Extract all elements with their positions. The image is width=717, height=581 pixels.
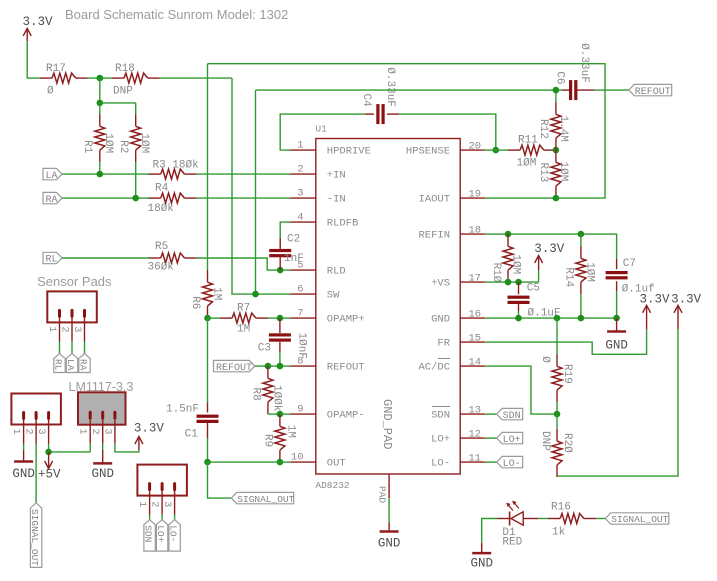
svg-text:LA: LA xyxy=(65,359,76,371)
svg-text:13: 13 xyxy=(469,405,482,417)
svg-text:R11: R11 xyxy=(518,134,538,146)
svg-text:LO+: LO+ xyxy=(503,435,521,446)
svg-text:SDN: SDN xyxy=(503,411,521,422)
svg-text:REFOUT: REFOUT xyxy=(327,362,365,374)
svg-text:SDN: SDN xyxy=(431,410,450,422)
svg-text:3.3V: 3.3V xyxy=(671,292,702,306)
svg-text:HPDRIVE: HPDRIVE xyxy=(327,146,371,158)
svg-text:1: 1 xyxy=(10,429,21,435)
svg-text:R3 18Øk: R3 18Øk xyxy=(153,159,200,171)
svg-text:1ØM: 1ØM xyxy=(517,158,537,170)
svg-text:RLDFB: RLDFB xyxy=(327,218,359,230)
svg-text:3: 3 xyxy=(71,326,82,332)
svg-text:REFIN: REFIN xyxy=(418,230,450,242)
svg-text:1.4M: 1.4M xyxy=(557,116,569,142)
svg-text:R2Ø: R2Ø xyxy=(561,433,573,453)
svg-text:R7: R7 xyxy=(237,302,250,314)
svg-text:FR: FR xyxy=(437,338,450,350)
svg-text:SW: SW xyxy=(327,290,340,302)
svg-text:R1Ø: R1Ø xyxy=(490,263,502,283)
svg-text:19: 19 xyxy=(469,189,482,201)
svg-text:1: 1 xyxy=(297,140,303,152)
svg-text:GND_PAD: GND_PAD xyxy=(380,399,394,449)
svg-text:1: 1 xyxy=(77,429,88,435)
svg-text:RL: RL xyxy=(46,255,58,266)
svg-text:C5: C5 xyxy=(527,283,540,295)
svg-text:R9: R9 xyxy=(262,434,274,447)
svg-text:GND: GND xyxy=(470,557,493,571)
svg-text:1M: 1M xyxy=(211,287,223,300)
svg-text:GND: GND xyxy=(605,339,628,353)
svg-text:2: 2 xyxy=(149,501,160,507)
svg-text:18Øk: 18Øk xyxy=(148,203,175,215)
svg-text:R5: R5 xyxy=(155,241,168,253)
svg-text:LO+: LO+ xyxy=(155,525,166,542)
svg-text:9: 9 xyxy=(297,404,303,416)
svg-text:36Øk: 36Øk xyxy=(148,262,175,274)
svg-text:SIGNAL_OUT: SIGNAL_OUT xyxy=(611,514,668,525)
svg-text:RA: RA xyxy=(78,359,89,371)
svg-text:C4: C4 xyxy=(360,94,372,108)
svg-text:SDN: SDN xyxy=(143,525,154,542)
svg-text:3: 3 xyxy=(35,429,46,435)
svg-text:18: 18 xyxy=(469,225,482,237)
svg-text:LA: LA xyxy=(46,171,58,182)
svg-text:3: 3 xyxy=(297,188,303,200)
svg-text:IAOUT: IAOUT xyxy=(418,194,450,206)
svg-text:R2: R2 xyxy=(117,140,129,153)
svg-text:3.3V: 3.3V xyxy=(534,242,565,256)
svg-text:1ØM: 1ØM xyxy=(557,162,569,182)
svg-text:6: 6 xyxy=(297,284,303,296)
svg-text:RL: RL xyxy=(53,359,64,371)
svg-text:SIGNAL_OUT: SIGNAL_OUT xyxy=(237,494,294,505)
svg-text:GND: GND xyxy=(431,314,450,326)
svg-text:C1: C1 xyxy=(185,428,199,440)
svg-text:10: 10 xyxy=(291,452,304,464)
svg-text:GND: GND xyxy=(91,467,114,481)
svg-text:1ØM: 1ØM xyxy=(510,254,522,274)
svg-text:11: 11 xyxy=(469,453,482,465)
svg-text:DNP: DNP xyxy=(539,431,551,451)
svg-text:R12: R12 xyxy=(537,119,549,139)
svg-text:1M: 1M xyxy=(237,324,250,336)
svg-text:1ØM: 1ØM xyxy=(102,133,114,153)
svg-text:R14: R14 xyxy=(563,267,575,287)
svg-text:R17: R17 xyxy=(46,63,66,75)
svg-text:R1: R1 xyxy=(81,140,93,154)
svg-text:SIGNAL_OUT: SIGNAL_OUT xyxy=(29,509,40,566)
svg-text:RED: RED xyxy=(502,536,522,548)
svg-text:1: 1 xyxy=(46,326,57,332)
svg-text:LO-: LO- xyxy=(503,459,521,470)
svg-text:2: 2 xyxy=(89,429,100,435)
svg-text:-IN: -IN xyxy=(327,194,346,206)
svg-text:Ø: Ø xyxy=(47,86,54,98)
svg-text:Board Schematic Sunrom Model:: Board Schematic Sunrom Model: 1302 xyxy=(65,7,288,22)
svg-text:2: 2 xyxy=(23,429,34,435)
svg-text:GND: GND xyxy=(378,537,401,551)
svg-text:LO+: LO+ xyxy=(431,434,450,446)
svg-text:C6: C6 xyxy=(554,71,566,84)
svg-text:1nF: 1nF xyxy=(284,253,304,265)
svg-text:GND: GND xyxy=(12,467,35,481)
svg-text:DNP: DNP xyxy=(113,86,133,98)
svg-text:2: 2 xyxy=(59,326,70,332)
svg-text:12: 12 xyxy=(469,429,482,441)
svg-text:OPAMP+: OPAMP+ xyxy=(327,314,365,326)
svg-text:R6: R6 xyxy=(189,296,201,309)
svg-text:1ØnF: 1ØnF xyxy=(296,333,308,359)
svg-text:1ØM: 1ØM xyxy=(138,133,150,153)
svg-text:OPAMP-: OPAMP- xyxy=(327,410,365,422)
svg-text:3: 3 xyxy=(101,429,112,435)
svg-text:3: 3 xyxy=(161,501,172,507)
svg-text:RA: RA xyxy=(46,195,58,206)
svg-text:LO-: LO- xyxy=(431,458,450,470)
svg-text:REFOUT: REFOUT xyxy=(635,87,671,98)
svg-text:4: 4 xyxy=(297,212,303,224)
svg-text:PAD: PAD xyxy=(377,486,388,503)
svg-text:RLD: RLD xyxy=(327,266,346,278)
svg-text:C7: C7 xyxy=(623,258,636,270)
svg-text:AC/DC: AC/DC xyxy=(418,362,450,374)
svg-text:1.5nF: 1.5nF xyxy=(166,404,199,416)
svg-text:R8: R8 xyxy=(250,388,262,401)
svg-text:R16: R16 xyxy=(551,501,571,513)
svg-text:14: 14 xyxy=(469,357,482,369)
svg-text:OUT: OUT xyxy=(327,458,346,470)
svg-text:R19: R19 xyxy=(561,364,573,384)
svg-text:20: 20 xyxy=(469,141,482,153)
svg-text:REFOUT: REFOUT xyxy=(216,363,252,374)
svg-text:HPSENSE: HPSENSE xyxy=(406,146,450,158)
svg-text:1ØM: 1ØM xyxy=(584,262,596,282)
svg-text:2: 2 xyxy=(297,164,303,176)
svg-text:3.3V: 3.3V xyxy=(640,292,671,306)
svg-text:+VS: +VS xyxy=(431,278,450,290)
svg-text:1ØØk: 1ØØk xyxy=(271,385,283,412)
svg-text:Sensor Pads: Sensor Pads xyxy=(37,274,112,289)
svg-text:1k: 1k xyxy=(552,527,566,539)
svg-text:R13: R13 xyxy=(537,163,549,183)
svg-text:1: 1 xyxy=(136,501,147,507)
svg-text:3.3V: 3.3V xyxy=(23,15,54,29)
svg-text:C2: C2 xyxy=(287,234,300,246)
svg-text:Ø.33uF: Ø.33uF xyxy=(384,67,396,107)
svg-text:Ø: Ø xyxy=(539,356,551,363)
svg-text:7: 7 xyxy=(297,308,303,320)
svg-text:R4: R4 xyxy=(155,183,169,195)
svg-text:AD8232: AD8232 xyxy=(315,480,350,491)
svg-text:17: 17 xyxy=(469,273,482,285)
svg-text:LO-: LO- xyxy=(168,525,179,542)
svg-text:+IN: +IN xyxy=(327,170,346,182)
svg-text:+5V: +5V xyxy=(38,468,61,482)
svg-text:3.3V: 3.3V xyxy=(134,422,165,436)
svg-text:1M: 1M xyxy=(285,425,297,438)
svg-text:R18: R18 xyxy=(115,63,135,75)
svg-text:C3: C3 xyxy=(258,342,271,354)
svg-text:15: 15 xyxy=(469,333,482,345)
svg-text:16: 16 xyxy=(469,309,482,321)
svg-text:U1: U1 xyxy=(315,124,327,135)
